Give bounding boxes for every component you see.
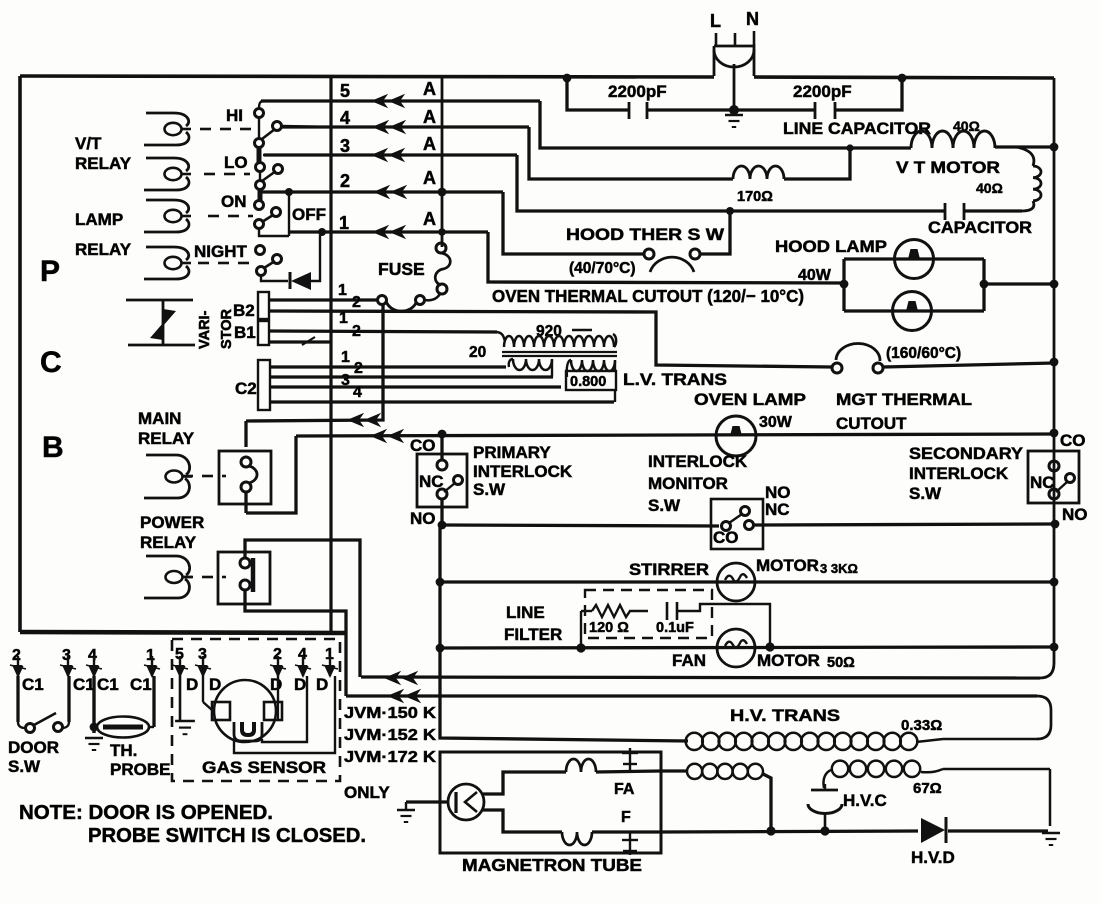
svg-text:V T MOTOR: V T MOTOR	[896, 158, 1000, 177]
svg-text:S.W: S.W	[8, 757, 41, 776]
ground at plug	[729, 105, 739, 115]
svg-text:3: 3	[62, 647, 71, 664]
wire line5 step down to VT motor feed	[540, 101, 911, 148]
svg-text:4: 4	[340, 108, 350, 128]
svg-text:2: 2	[12, 647, 21, 664]
svg-text:CAPACITOR: CAPACITOR	[928, 218, 1032, 237]
LV secondary winding A	[509, 359, 513, 367]
svg-text:H.V.C: H.V.C	[843, 791, 887, 810]
wire hood switch to capacitor line	[700, 211, 730, 254]
svg-text:3: 3	[340, 136, 350, 156]
svg-text:MGT THERMAL: MGT THERMAL	[836, 390, 972, 409]
line filter dashed box	[585, 590, 712, 638]
thermal probe	[92, 676, 95, 733]
svg-text:0.1uF: 0.1uF	[656, 620, 694, 636]
value box 0.800	[566, 371, 616, 390]
svg-text:RELAY: RELAY	[75, 154, 132, 173]
svg-text:GAS SENSOR: GAS SENSOR	[202, 758, 326, 777]
svg-text:1: 1	[339, 310, 348, 327]
wire B2 pin2 to MGT cutout	[269, 311, 832, 367]
svg-text:C: C	[40, 346, 62, 379]
svg-text:4: 4	[353, 384, 362, 401]
svg-text:40Ω: 40Ω	[976, 180, 1003, 196]
svg-text:67Ω: 67Ω	[913, 780, 942, 797]
svg-text:DOOR: DOOR	[8, 738, 59, 757]
svg-text:FA: FA	[614, 781, 635, 798]
wire main relay bottom	[244, 492, 247, 513]
svg-text:LAMP: LAMP	[75, 210, 123, 229]
svg-text:NC: NC	[419, 472, 444, 491]
HVC choke winding 67 ohm	[823, 770, 831, 788]
lamp relay coil 2	[146, 247, 189, 260]
svg-text:B2: B2	[233, 301, 255, 320]
wire fuse junction down to main relay	[246, 304, 383, 421]
wire C2 pin4	[270, 400, 614, 403]
svg-text:A: A	[423, 168, 436, 188]
VT relay coil 1	[146, 113, 189, 126]
svg-text:F: F	[621, 809, 631, 826]
svg-text:N: N	[746, 9, 759, 29]
svg-text:PROBE SWITCH IS CLOSED.: PROBE SWITCH IS CLOSED.	[88, 825, 366, 847]
wire filter left leg	[580, 611, 582, 648]
svg-text:C2: C2	[235, 379, 257, 398]
HV diode HVD	[921, 818, 945, 843]
lamp relay coil 1	[146, 200, 189, 213]
node line2 bus junction	[438, 188, 447, 197]
wire heater to pin1	[234, 676, 335, 753]
VT relay coil 2	[146, 158, 189, 171]
svg-text:2200pF: 2200pF	[793, 82, 852, 101]
wire interlock down-feed	[438, 525, 441, 648]
svg-text:V/T: V/T	[75, 134, 102, 153]
svg-text:B: B	[42, 431, 64, 464]
power relay contact	[218, 552, 270, 604]
capacitor 0.1uF	[666, 602, 669, 620]
wire power relay top to HV feed line	[245, 540, 360, 677]
svg-text:1: 1	[146, 647, 155, 664]
wire B1 pin2 stub	[269, 340, 331, 343]
wire B1 pin1 to LV trans primary	[269, 331, 497, 332]
svg-text:POWER: POWER	[140, 513, 204, 532]
feedthrough FA	[629, 748, 631, 771]
svg-text:PROBE: PROBE	[110, 760, 170, 779]
svg-text:SECONDARY: SECONDARY	[909, 444, 1024, 463]
wire C2 pin1	[270, 365, 506, 368]
wire HV feed line 2	[346, 694, 1037, 697]
svg-text:50Ω: 50Ω	[827, 655, 855, 671]
dashed links coils to switches	[200, 128, 211, 131]
wire C2 pin2	[270, 375, 553, 378]
line 5 with arrows and A	[261, 99, 540, 102]
HV secondary filament winding	[661, 769, 687, 772]
wire heater to pin4	[262, 676, 307, 742]
door switch	[16, 676, 19, 722]
svg-text:1: 1	[339, 213, 349, 233]
svg-text:HOOD LAMP: HOOD LAMP	[775, 237, 887, 256]
HV capacitor HVC	[811, 789, 838, 792]
bus vertical from top corner to fuse	[441, 78, 444, 247]
svg-text:2: 2	[352, 294, 361, 311]
svg-text:(40/70°C): (40/70°C)	[569, 260, 636, 277]
inductor 170 ohm	[733, 166, 784, 179]
svg-text:L: L	[710, 11, 721, 31]
svg-text:ONLY: ONLY	[344, 783, 390, 802]
svg-text:HI: HI	[226, 106, 243, 125]
svg-text:C1: C1	[97, 675, 119, 694]
svg-text:D: D	[316, 675, 328, 694]
VT motor capacitor	[944, 203, 947, 220]
svg-text:20: 20	[469, 344, 486, 361]
svg-text:OVEN LAMP: OVEN LAMP	[694, 390, 806, 409]
svg-text:30W: 30W	[759, 414, 793, 431]
svg-text:MAIN: MAIN	[138, 409, 181, 428]
PCB board outline box	[20, 76, 714, 77]
svg-text:40W: 40W	[798, 267, 832, 284]
wire B2 pin1 to fuse switch	[269, 298, 378, 301]
svg-text:PRIMARY: PRIMARY	[473, 443, 551, 462]
svg-text:OVEN THERMAL CUTOUT (120/− 10°: OVEN THERMAL CUTOUT (120/− 10°C)	[492, 286, 804, 306]
svg-text:3 3KΩ: 3 3KΩ	[820, 561, 858, 576]
svg-text:2: 2	[354, 360, 363, 377]
wire HV feed line 1	[361, 677, 1040, 678]
filament F path	[482, 810, 562, 832]
svg-text:2: 2	[340, 171, 350, 191]
gas sensor dashed box	[172, 639, 340, 781]
svg-text:INTERLOCK: INTERLOCK	[648, 452, 748, 471]
svg-text:S.W: S.W	[909, 484, 942, 503]
svg-text:H.V.D: H.V.D	[911, 848, 955, 867]
svg-text:L.V. TRANS: L.V. TRANS	[623, 370, 727, 389]
svg-text:INTERLOCK: INTERLOCK	[473, 462, 573, 481]
svg-text:NO: NO	[410, 509, 436, 528]
wire line4 step down to 170 ohm coil	[529, 127, 733, 179]
svg-text:1: 1	[338, 282, 347, 299]
LV secondary winding B 0.800	[567, 360, 571, 377]
svg-text:NIGHT: NIGHT	[194, 242, 248, 261]
svg-text:NC: NC	[765, 500, 790, 519]
wire NO line to monitor switch	[442, 525, 719, 526]
svg-text:FILTER: FILTER	[504, 625, 562, 644]
wire pin2 to sensor	[277, 676, 279, 702]
svg-text:NO: NO	[1062, 505, 1088, 524]
svg-text:FAN: FAN	[672, 651, 706, 670]
svg-text:C1: C1	[22, 675, 44, 694]
svg-text:A: A	[423, 79, 436, 99]
svg-text:CUTOUT: CUTOUT	[836, 414, 907, 433]
svg-text:0.800: 0.800	[570, 374, 606, 390]
line 4 with arrows and A	[281, 125, 529, 128]
wire pin3 to sensor	[202, 676, 204, 702]
svg-text:(160/60°C): (160/60°C)	[886, 345, 961, 362]
line 1 with arrows and A	[290, 230, 488, 233]
svg-text:CO: CO	[410, 436, 436, 455]
svg-text:A: A	[423, 134, 436, 154]
MGT thermal cutout switch	[832, 363, 842, 373]
filament FA path	[482, 772, 566, 794]
svg-text:CO: CO	[713, 528, 739, 547]
svg-text:LINE: LINE	[506, 603, 545, 622]
svg-text:C1: C1	[73, 675, 95, 694]
svg-text:RELAY: RELAY	[140, 533, 197, 552]
ground magnetron	[406, 800, 448, 803]
svg-text:LO: LO	[224, 153, 248, 172]
wire line3 step down to VT capacitor line	[517, 155, 945, 211]
svg-text:0.33Ω: 0.33Ω	[901, 717, 942, 734]
wire line2 step down to hood thermal switch	[503, 192, 644, 254]
svg-text:MOTOR: MOTOR	[756, 556, 819, 575]
stirrer motor line	[436, 578, 445, 587]
svg-text:4: 4	[88, 647, 97, 664]
LV transformer core	[502, 351, 617, 353]
svg-text:CO: CO	[1060, 431, 1086, 450]
svg-text:B1: B1	[234, 323, 256, 342]
gas sensor heater	[234, 722, 262, 741]
svg-text:RELAY: RELAY	[138, 429, 195, 448]
wire VT motor to bus	[995, 145, 1054, 148]
HV rail bottom	[661, 831, 918, 832]
varistor	[126, 299, 193, 302]
svg-text:D: D	[294, 675, 306, 694]
svg-text:FUSE: FUSE	[378, 259, 425, 279]
svg-text:5: 5	[340, 81, 350, 101]
svg-text:S.W: S.W	[473, 480, 506, 499]
svg-text:2: 2	[352, 323, 361, 340]
svg-text:MONITOR: MONITOR	[648, 474, 728, 493]
node junction right	[898, 74, 907, 83]
wire right bus vertical	[1053, 78, 1056, 663]
svg-text:RELAY: RELAY	[75, 240, 132, 259]
VT motor main winding 40 ohm	[911, 131, 995, 148]
thermal switch below fuse	[416, 296, 425, 305]
svg-text:D: D	[270, 675, 282, 694]
wire power relay bottom to HV feed line 2	[245, 590, 346, 696]
wire line1 step down to oven thermal cutout line	[488, 232, 844, 283]
svg-text:ON: ON	[221, 192, 247, 211]
svg-text:STIRRER: STIRRER	[629, 560, 709, 579]
svg-text:MAGNETRON TUBE: MAGNETRON TUBE	[462, 855, 642, 875]
fan motor line	[436, 644, 445, 653]
svg-text:P: P	[40, 255, 60, 288]
line 2 with arrows and A	[262, 190, 503, 193]
feedthrough F	[629, 832, 631, 855]
svg-text:170Ω: 170Ω	[737, 189, 773, 205]
wire main relay output line	[246, 436, 296, 513]
svg-text:NOTE: DOOR IS OPENED.: NOTE: DOOR IS OPENED.	[19, 802, 273, 824]
svg-text:HOOD THER S W: HOOD THER S W	[566, 225, 725, 244]
svg-text:1: 1	[341, 349, 350, 366]
gas sensor ground pin5	[179, 676, 182, 720]
svg-text:H.V. TRANS: H.V. TRANS	[730, 706, 840, 725]
svg-text:VARI-: VARI-	[197, 310, 213, 349]
node junction left	[563, 74, 572, 83]
svg-text:A: A	[423, 107, 436, 127]
svg-text:2200pF: 2200pF	[608, 82, 667, 101]
svg-text:OFF: OFF	[292, 205, 326, 224]
resistor 120 ohm	[581, 610, 592, 612]
svg-text:INTERLOCK: INTERLOCK	[909, 464, 1009, 483]
svg-text:120 Ω: 120 Ω	[589, 620, 629, 636]
diode to line 1	[289, 272, 292, 289]
svg-text:S.W: S.W	[648, 496, 681, 515]
wire fan junction down to HV primary	[440, 648, 688, 741]
ground HV rail	[1042, 832, 1060, 835]
svg-text:JVM·150 K: JVM·150 K	[344, 705, 437, 722]
VT motor aux winding 40 ohm	[1016, 147, 1034, 166]
magnetron tube box	[440, 752, 661, 853]
wire C2 pin3	[270, 385, 561, 388]
svg-text:D: D	[209, 675, 221, 694]
svg-text:TH.: TH.	[110, 741, 137, 760]
svg-text:LINE CAPACITOR: LINE CAPACITOR	[783, 119, 931, 138]
svg-text:NC: NC	[1030, 473, 1055, 492]
svg-text:D: D	[186, 675, 198, 694]
magnetron tube symbol	[448, 784, 484, 820]
svg-text:JVM·172 K: JVM·172 K	[344, 749, 437, 766]
svg-text:JVM·152 K: JVM·152 K	[344, 727, 437, 744]
wire monitor switch to secondary interlock	[753, 524, 1051, 525]
svg-text:C1: C1	[130, 675, 152, 694]
wire from 170 ohm up to VT line	[784, 148, 850, 179]
gas sensor body	[214, 680, 276, 742]
main relay contact	[219, 451, 271, 504]
svg-text:A: A	[423, 209, 436, 229]
line 3 with arrows and A	[264, 153, 517, 156]
svg-text:MOTOR: MOTOR	[757, 651, 820, 670]
